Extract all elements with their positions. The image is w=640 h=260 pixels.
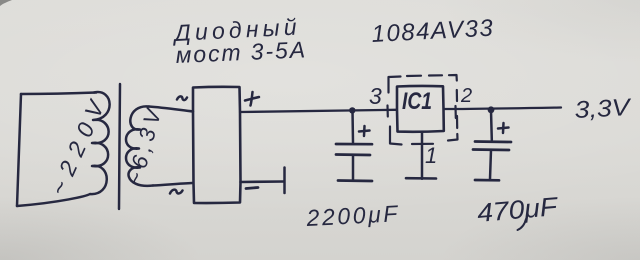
svg-text:470μF: 470μF xyxy=(476,191,561,228)
svg-text:3: 3 xyxy=(369,83,382,109)
svg-text:IC1: IC1 xyxy=(402,88,432,115)
svg-text:2: 2 xyxy=(460,85,472,107)
svg-text:1084AV33: 1084AV33 xyxy=(371,15,495,48)
svg-text:1: 1 xyxy=(425,143,437,168)
svg-text:3,3V: 3,3V xyxy=(574,94,633,124)
svg-text:мост 3-5А: мост 3-5А xyxy=(175,36,307,68)
svg-text:2200μF: 2200μF xyxy=(305,200,401,231)
svg-text:~220V: ~220V xyxy=(45,95,111,199)
